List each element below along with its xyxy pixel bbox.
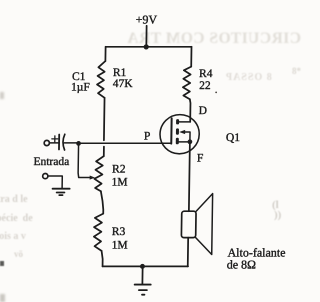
svg-text:R4: R4	[199, 68, 213, 80]
ground input bars	[53, 188, 70, 190]
transistor Q1 body arrowhead	[179, 130, 185, 134]
svg-text:47K: 47K	[113, 78, 134, 90]
node gate junction dot	[76, 141, 81, 146]
wiper arrowhead into R2	[90, 176, 95, 180]
wire speaker to bottom rail	[187, 238, 189, 267]
wire bottom rail	[103, 265, 189, 267]
svg-text:1µF: 1µF	[71, 81, 90, 93]
wire R3 to bottom rail	[101, 251, 102, 267]
wire R2 to R3	[101, 191, 104, 213]
node supply junction dot	[144, 44, 149, 49]
ghost bleed-through text right band	[225, 72, 272, 83]
svg-text:F: F	[197, 153, 204, 165]
left edge smudge dark	[0, 261, 4, 266]
capacitor C1 plus sign	[52, 136, 58, 142]
node source junction dot	[187, 139, 192, 144]
wire bottom terminal to ground	[48, 176, 62, 189]
wire R4 to drain	[189, 99, 190, 122]
speaker horn	[195, 194, 212, 255]
wire C1 to gate node	[64, 142, 78, 144]
transistor Q1 channel tabs	[176, 119, 179, 124]
svg-text:Q1: Q1	[226, 132, 240, 144]
wire terminal to C1	[49, 142, 58, 144]
wire right column top	[190, 47, 192, 67]
svg-text:R3: R3	[112, 226, 126, 238]
ghost right edge marks	[272, 199, 279, 211]
resistor R1	[97, 61, 105, 98]
wire R1 to crossing	[103, 98, 106, 141]
transistor Q1 drain connection	[179, 121, 190, 123]
input terminal top circle	[44, 140, 49, 145]
svg-text:Entrada: Entrada	[33, 156, 69, 168]
svg-text:1M: 1M	[112, 240, 128, 252]
svg-text:P: P	[144, 131, 151, 143]
transistor Q1 body arrow line	[184, 132, 190, 142]
wire Q1 source to speaker	[189, 142, 190, 212]
wire left column top	[104, 47, 106, 61]
wire wiper from gate node	[78, 143, 91, 177]
wire top rail	[106, 46, 192, 48]
resistor R3	[94, 214, 104, 251]
capacitor C1 plate curved	[63, 134, 65, 150]
ghost left margin words	[0, 194, 28, 205]
input terminal bottom circle	[43, 174, 48, 179]
resistor R4	[183, 67, 191, 100]
resistor R2	[94, 156, 104, 191]
transistor Q1 circle	[160, 115, 200, 154]
ground bottom stem	[141, 266, 143, 284]
svg-text:de 8Ω: de 8Ω	[227, 258, 257, 272]
speck after 22	[215, 92, 217, 94]
svg-text:22: 22	[199, 80, 211, 92]
ground bottom bars	[135, 284, 151, 286]
capacitor C1 plate straight	[58, 135, 60, 150]
wire gate	[78, 142, 171, 144]
wire crossing to R2	[103, 147, 105, 157]
transistor Q1 gate bar	[170, 118, 172, 143]
speaker driver rect	[181, 211, 196, 237]
svg-text:R2: R2	[112, 163, 126, 175]
wire +9V stem	[145, 26, 147, 47]
svg-text:D: D	[199, 105, 207, 117]
node bottom ground junction dot	[140, 264, 145, 269]
ghost bleed-through text top	[141, 30, 301, 48]
svg-text:1M: 1M	[112, 177, 128, 189]
transistor Q1 source connection	[179, 141, 190, 143]
svg-text:+9V: +9V	[136, 12, 158, 26]
